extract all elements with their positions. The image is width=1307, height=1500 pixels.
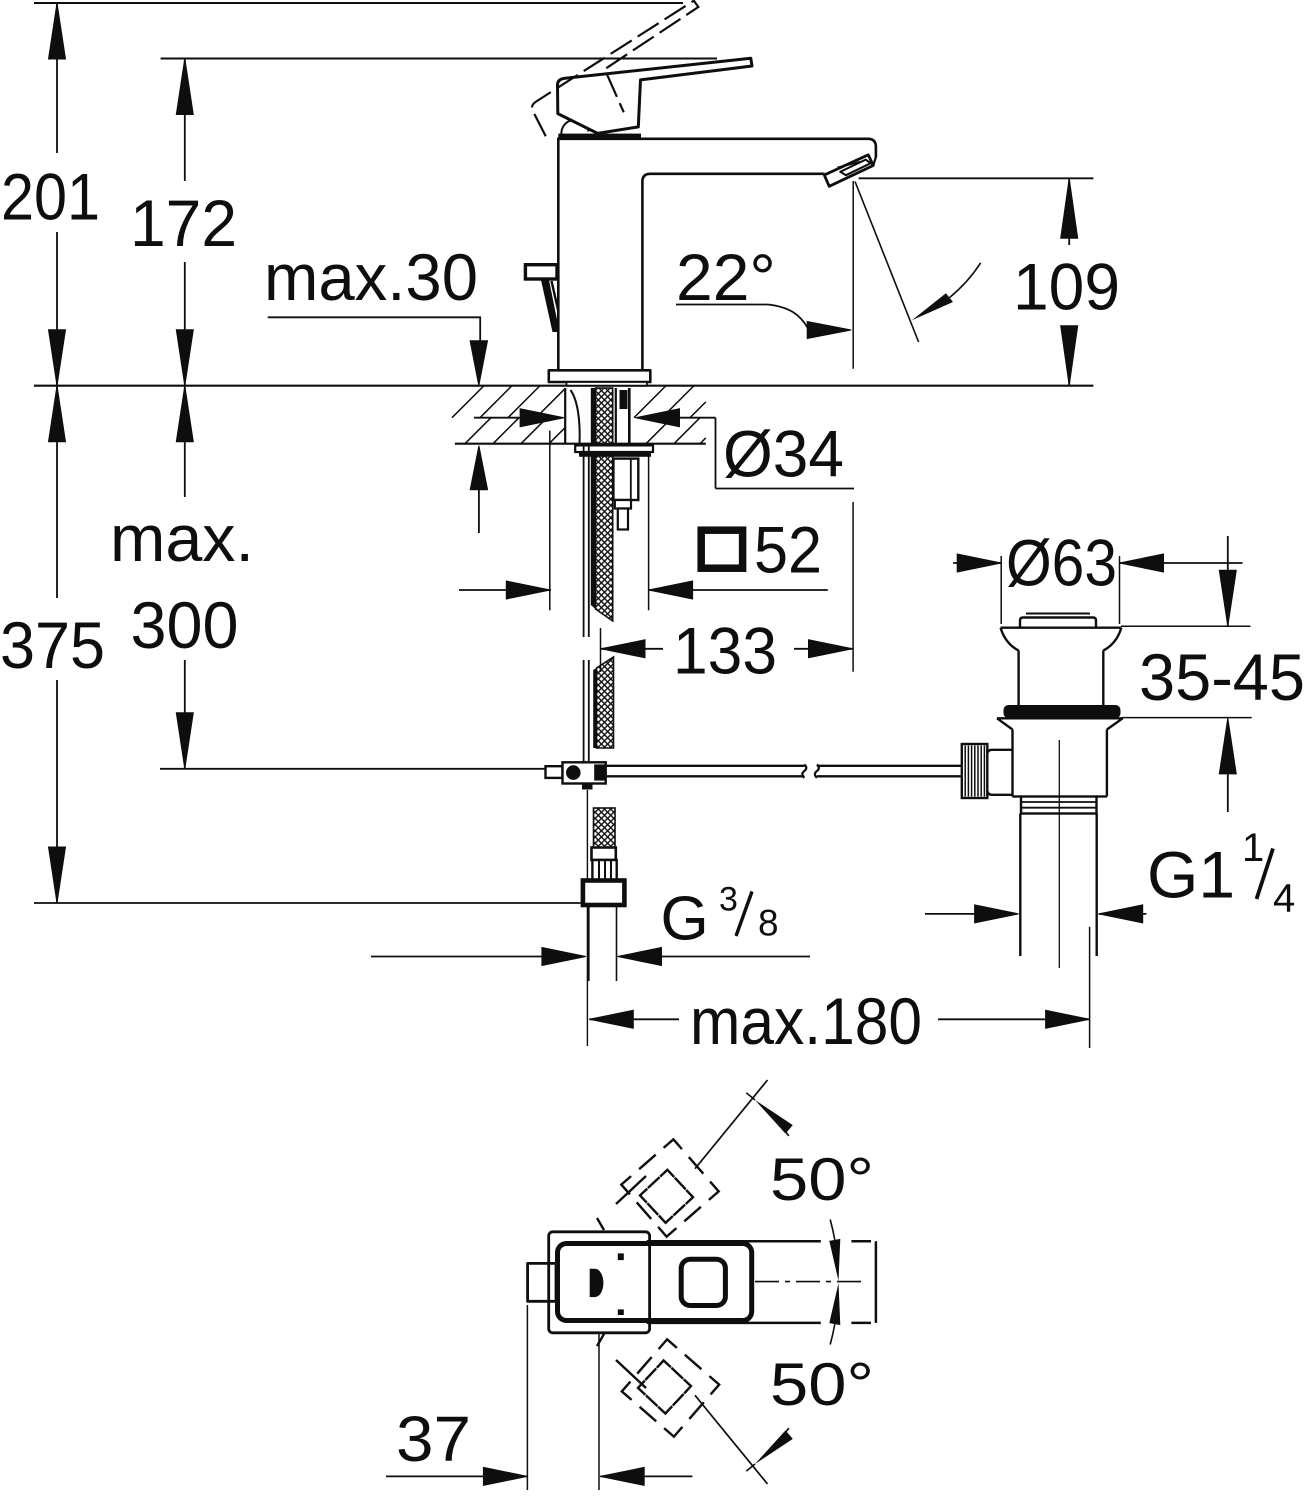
wire 50deg arc tick lower <box>830 1324 835 1344</box>
plan lever rounded outline <box>558 1244 752 1321</box>
pop-up horizontal rod to drain <box>606 765 804 767</box>
faucet aerator block <box>824 155 873 187</box>
wire max.300 bottom reference line <box>160 768 546 770</box>
dashed centerline remnants near diamonds <box>616 1176 646 1204</box>
countertop hatching right lower band <box>646 418 672 444</box>
wire 50deg rotated centerline upper <box>695 1080 768 1169</box>
dimension G3/8 <box>371 956 542 958</box>
node 22deg leader arrowhead <box>807 322 851 339</box>
wire second reference line (lever rest height 172) <box>161 58 717 60</box>
dashed rotated spout square upper <box>597 1139 719 1436</box>
dimension diameter 34 <box>474 417 521 419</box>
faucet spout top edge <box>557 139 876 158</box>
wire water stream line at 22deg <box>855 182 919 343</box>
label square52 symbol <box>701 530 742 568</box>
faucet spout underside <box>642 174 824 370</box>
dimension 201 vertical line <box>56 3 58 153</box>
svg-text:52: 52 <box>754 513 822 587</box>
pop-up rod vertical from faucet <box>583 445 585 637</box>
svg-text:1: 1 <box>1242 826 1264 870</box>
drain body bottom steps <box>1013 795 1022 797</box>
plan detail dot lower <box>618 1309 624 1315</box>
countertop hatching right upper band <box>634 386 666 418</box>
plan spout rectangle bottom edge <box>647 1322 821 1325</box>
dimension 109 vertical line <box>1068 178 1070 245</box>
hose fitting crimp ribs <box>592 860 616 881</box>
node 63 extension line left <box>1000 556 1002 624</box>
svg-text:G: G <box>661 885 709 954</box>
node 37 extension line right (body axis) <box>598 1333 600 1490</box>
drain center axis line <box>1058 740 1060 968</box>
svg-text:37: 37 <box>396 1403 471 1475</box>
node max.180 extension line right <box>1089 927 1091 1048</box>
faucet base plate <box>549 370 651 385</box>
plan spout rectangle right edge <box>875 1241 878 1323</box>
drain knurled knob <box>962 744 988 798</box>
svg-text:max.30: max.30 <box>264 240 478 314</box>
svg-text:max.180: max.180 <box>690 984 922 1058</box>
wire countertop underside line <box>455 443 706 445</box>
threaded stud left edge dark bar <box>591 388 596 609</box>
node 52 extension line right <box>648 450 650 610</box>
node 50deg arrowhead at centerline lower <box>829 1283 840 1325</box>
braided hose section B <box>597 657 614 748</box>
svg-text:300: 300 <box>131 588 239 662</box>
svg-text:375: 375 <box>0 608 105 682</box>
G3/8 nut <box>583 881 625 906</box>
G3/8 pipe end <box>588 905 616 981</box>
threaded stud braided section A through counter <box>596 388 613 621</box>
wire 22deg label underline and leader <box>676 304 768 306</box>
svg-text:G1: G1 <box>1147 838 1235 912</box>
dimension max.30 leader and arrows <box>268 316 481 318</box>
drain plug flare right <box>1103 628 1121 651</box>
pop-up pull rod knob on body <box>525 265 557 279</box>
dimension 37 <box>386 1475 528 1477</box>
node max.180 extension line left <box>586 790 588 1046</box>
svg-text:3: 3 <box>719 881 738 919</box>
drain valve body sides <box>1011 730 1013 797</box>
braided hose section C <box>594 808 616 848</box>
plan body square <box>549 1232 650 1333</box>
plan centerline dash-dot <box>755 1281 862 1283</box>
svg-text:Ø34: Ø34 <box>723 417 844 491</box>
dimension 375 vertical line <box>56 386 58 598</box>
drain plug shoulder line <box>1001 627 1122 629</box>
dashed rotated spout square lower <box>637 1357 652 1374</box>
node 50deg arc arrowhead upper diagonal <box>755 1100 793 1134</box>
dimension 133 <box>601 640 645 658</box>
svg-text:22°: 22° <box>676 240 776 314</box>
hose fitting collar <box>583 848 625 906</box>
svg-text:Ø63: Ø63 <box>1006 526 1117 600</box>
shank outer wall left <box>564 388 566 444</box>
dimension 172 vertical line <box>184 59 186 182</box>
mounting nut on stud <box>613 459 638 500</box>
svg-text:50°: 50° <box>770 1146 874 1213</box>
countertop hatching left lower band <box>465 418 491 444</box>
dimension diameter 63 <box>953 562 1001 564</box>
drain tailpipe <box>1019 814 1021 957</box>
svg-text:max.: max. <box>110 501 254 575</box>
rod pipe-break marks <box>802 765 806 778</box>
plan lever slot detail <box>590 1269 604 1297</box>
pop-up pull rod diagonal <box>541 280 560 332</box>
faucet aerator chamfer <box>873 157 876 166</box>
faucet body left edge <box>557 139 560 370</box>
plan detail dot upper <box>618 1253 624 1260</box>
drain thread collar <box>1021 797 1097 814</box>
wire bottom reference line (375 bottom) <box>34 902 581 904</box>
drain plug cap <box>1026 613 1090 615</box>
lever handle dashed (raised position) <box>521 0 726 148</box>
dimension max.300 vertical line <box>184 386 186 497</box>
wire 50deg rotated centerline lower <box>695 1395 768 1484</box>
svg-text:8: 8 <box>758 903 779 944</box>
drain rubber seal washer <box>1004 705 1121 718</box>
node spout axis extension line (22deg vertical) <box>852 181 854 369</box>
node 22deg arc arrowhead on stream <box>912 293 953 320</box>
svg-text:201: 201 <box>1 159 100 233</box>
dimension max.180 <box>589 1010 633 1028</box>
svg-text:133: 133 <box>673 613 777 687</box>
drain left port <box>987 750 1012 795</box>
node 133 extension line left (faucet axis) <box>600 628 602 672</box>
lever handle solid (rest position) <box>558 58 753 133</box>
svg-text:109: 109 <box>1013 250 1120 324</box>
drain flange under washer <box>997 717 1123 719</box>
wire 22deg angle arc <box>950 263 981 298</box>
wire top reference line (lever raised height) <box>34 2 683 4</box>
shank outer wall right <box>615 388 617 444</box>
node 63 extension line right <box>1119 556 1121 624</box>
rod clamp / ball joint <box>546 762 606 789</box>
svg-text:35-45: 35-45 <box>1139 640 1305 714</box>
plan spout rectangle top edge <box>647 1240 821 1243</box>
faucet cartridge dome arc <box>561 120 588 136</box>
svg-text:172: 172 <box>130 186 237 260</box>
mounting washer under counter <box>575 445 653 529</box>
node 50deg arrowhead at centerline upper <box>829 1239 840 1281</box>
dimension 35-45 <box>1227 536 1229 626</box>
dimension square 52 <box>459 589 551 591</box>
node 37 extension line left (knob edge) <box>526 1305 528 1490</box>
node spout axis extension line lower segment <box>852 502 854 672</box>
node 50deg arc arrowhead lower diagonal <box>755 1430 793 1464</box>
svg-text:4: 4 <box>1273 877 1295 921</box>
countertop hatching left upper band <box>452 386 484 418</box>
dimension G1 1/4 <box>925 913 976 915</box>
wire spout outlet water level line (109 top ref) <box>859 177 1094 179</box>
wire countertop surface line <box>34 385 1093 387</box>
faucet body top dark bar <box>558 134 641 139</box>
drain upper body sides <box>1017 651 1019 706</box>
wire 50deg arc tick upper <box>830 1220 835 1240</box>
drain plug flare left <box>1001 628 1019 651</box>
plan back knob <box>528 1263 556 1301</box>
plan spout outlet rounded square <box>681 1259 725 1305</box>
node 52 extension line left <box>549 431 551 611</box>
svg-text:50°: 50° <box>770 1351 874 1418</box>
